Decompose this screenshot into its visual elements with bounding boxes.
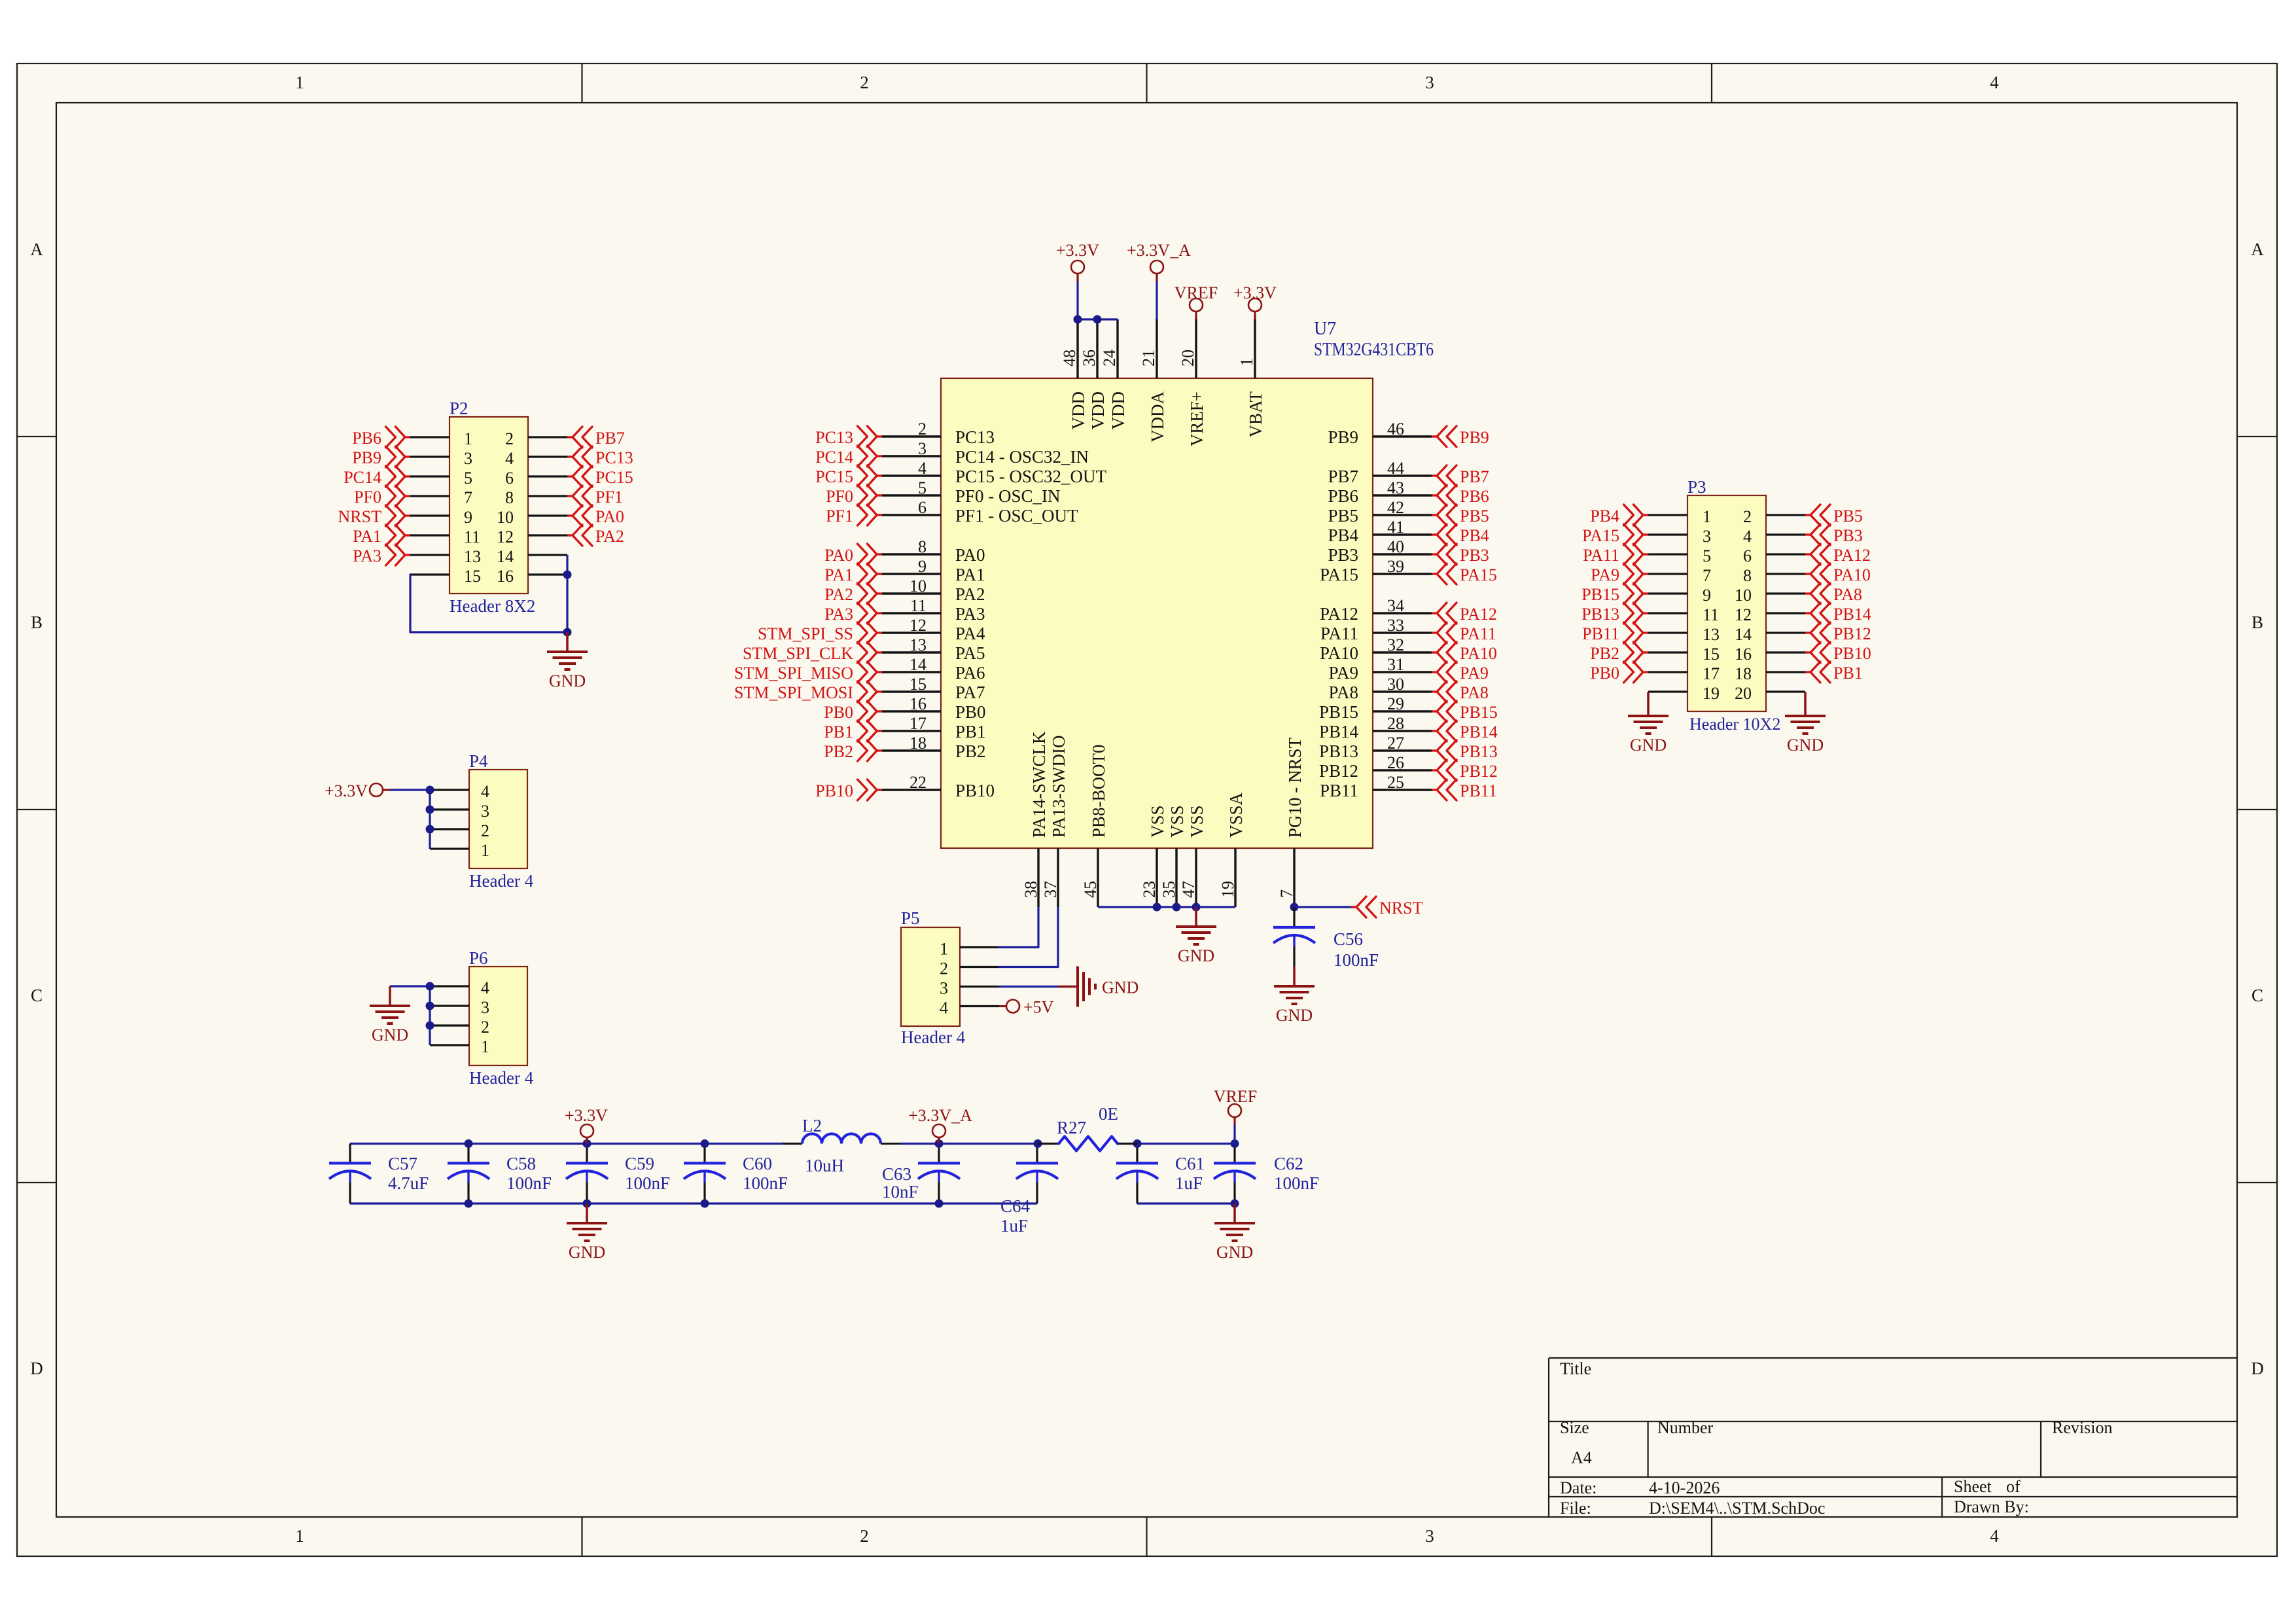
svg-text:48: 48 [1060, 349, 1079, 366]
svg-text:PB1: PB1 [824, 722, 853, 741]
svg-text:3: 3 [464, 449, 472, 468]
svg-text:18: 18 [1735, 664, 1752, 683]
svg-text:Header 4: Header 4 [469, 1068, 534, 1088]
svg-text:4: 4 [481, 782, 489, 801]
svg-text:15: 15 [464, 567, 481, 586]
svg-text:1: 1 [940, 940, 948, 959]
svg-text:4.7uF: 4.7uF [388, 1173, 429, 1193]
svg-text:PB4: PB4 [1590, 507, 1619, 526]
svg-text:2: 2 [481, 821, 489, 840]
svg-text:VSS: VSS [1167, 805, 1187, 838]
svg-text:PB14: PB14 [1319, 722, 1359, 741]
svg-text:C58: C58 [506, 1154, 536, 1173]
svg-text:PA13-SWDIO: PA13-SWDIO [1049, 735, 1069, 838]
svg-text:C61: C61 [1175, 1154, 1205, 1173]
svg-text:C62: C62 [1274, 1154, 1303, 1173]
svg-text:46: 46 [1387, 419, 1404, 438]
svg-text:3: 3 [1425, 73, 1434, 92]
svg-text:PB15: PB15 [1460, 703, 1498, 722]
svg-text:34: 34 [1387, 596, 1404, 615]
svg-text:40: 40 [1387, 537, 1404, 556]
svg-text:7: 7 [464, 488, 472, 507]
svg-text:44: 44 [1387, 459, 1404, 478]
svg-text:Header 4: Header 4 [469, 871, 534, 891]
svg-text:PA0: PA0 [595, 507, 624, 526]
svg-text:4: 4 [940, 999, 948, 1018]
svg-text:1: 1 [481, 841, 489, 860]
svg-text:PB13: PB13 [1460, 742, 1498, 761]
svg-text:39: 39 [1387, 557, 1404, 576]
svg-text:PF1 - OSC_OUT: PF1 - OSC_OUT [955, 506, 1078, 526]
svg-text:24: 24 [1100, 349, 1119, 366]
svg-text:B: B [31, 613, 43, 632]
svg-text:18: 18 [910, 734, 927, 753]
svg-text:3: 3 [1425, 1526, 1434, 1546]
svg-text:5: 5 [1703, 546, 1711, 565]
svg-text:33: 33 [1387, 616, 1404, 635]
svg-text:Size: Size [1560, 1418, 1589, 1437]
svg-text:PB10: PB10 [1833, 644, 1871, 663]
svg-text:12: 12 [910, 616, 927, 635]
svg-text:D: D [30, 1359, 43, 1378]
svg-text:PB7: PB7 [595, 429, 625, 448]
svg-text:PB3: PB3 [1460, 546, 1489, 565]
svg-text:PB0: PB0 [1590, 664, 1619, 683]
svg-text:4-10-2026: 4-10-2026 [1649, 1478, 1720, 1497]
svg-text:GND: GND [1102, 978, 1139, 997]
svg-text:PB2: PB2 [1590, 644, 1619, 663]
svg-text:U7: U7 [1314, 319, 1336, 339]
svg-text:2: 2 [1743, 507, 1752, 526]
svg-text:100nF: 100nF [1274, 1173, 1319, 1193]
svg-text:6: 6 [918, 498, 927, 517]
svg-text:0E: 0E [1099, 1104, 1118, 1124]
svg-text:PC15: PC15 [815, 467, 853, 486]
svg-text:4: 4 [505, 449, 514, 468]
svg-text:14: 14 [497, 547, 514, 566]
svg-text:PB8-BOOT0: PB8-BOOT0 [1089, 744, 1108, 838]
svg-text:2: 2 [918, 419, 927, 438]
svg-text:17: 17 [910, 714, 927, 733]
svg-text:C60: C60 [743, 1154, 772, 1173]
svg-text:37: 37 [1041, 881, 1060, 898]
svg-text:10nF: 10nF [882, 1182, 919, 1202]
svg-text:PB4: PB4 [1328, 526, 1358, 545]
svg-text:PA15: PA15 [1320, 565, 1358, 584]
svg-text:PB9: PB9 [352, 448, 381, 467]
svg-text:4: 4 [918, 459, 927, 478]
svg-text:PA15: PA15 [1460, 565, 1497, 584]
svg-text:PA3: PA3 [353, 546, 381, 565]
svg-text:Header 10X2: Header 10X2 [1689, 715, 1780, 734]
svg-text:PA12: PA12 [1833, 546, 1871, 565]
svg-text:PA6: PA6 [955, 663, 985, 683]
svg-text:23: 23 [1140, 881, 1159, 898]
svg-text:PA1: PA1 [353, 527, 381, 546]
svg-text:PC15: PC15 [595, 468, 633, 487]
svg-text:8: 8 [505, 488, 514, 507]
svg-text:29: 29 [1387, 694, 1404, 713]
svg-text:100nF: 100nF [625, 1173, 670, 1193]
svg-text:PB5: PB5 [1833, 507, 1863, 526]
svg-text:PB2: PB2 [955, 741, 986, 761]
svg-text:PB4: PB4 [1460, 526, 1489, 545]
svg-text:9: 9 [464, 508, 472, 527]
svg-text:STM_SPI_CLK: STM_SPI_CLK [743, 644, 853, 663]
svg-text:13: 13 [1703, 625, 1720, 644]
svg-text:22: 22 [910, 773, 927, 792]
svg-text:PC13: PC13 [815, 428, 853, 447]
svg-text:B: B [2252, 613, 2263, 632]
svg-text:PB6: PB6 [352, 429, 381, 448]
svg-text:45: 45 [1081, 881, 1100, 898]
svg-text:PA12: PA12 [1320, 604, 1358, 624]
svg-text:7: 7 [1703, 566, 1711, 585]
svg-text:PB7: PB7 [1328, 467, 1358, 486]
svg-text:16: 16 [1735, 645, 1752, 664]
svg-text:GND: GND [1276, 1006, 1313, 1025]
svg-text:PA2: PA2 [595, 527, 624, 546]
svg-text:P5: P5 [901, 908, 920, 928]
svg-text:PA0: PA0 [955, 545, 985, 565]
svg-text:PB7: PB7 [1460, 467, 1489, 486]
svg-text:PB13: PB13 [1319, 741, 1358, 761]
svg-text:PA4: PA4 [955, 624, 985, 643]
svg-text:P3: P3 [1687, 477, 1706, 497]
svg-text:PA3: PA3 [824, 605, 853, 624]
svg-text:PF1: PF1 [826, 507, 853, 526]
svg-text:NRST: NRST [338, 507, 382, 526]
svg-text:PB11: PB11 [1582, 624, 1619, 643]
svg-text:2: 2 [481, 1018, 489, 1037]
svg-text:1: 1 [1703, 507, 1711, 526]
svg-text:14: 14 [910, 655, 927, 674]
svg-text:Title: Title [1560, 1359, 1591, 1378]
svg-text:PA9: PA9 [1591, 565, 1619, 584]
svg-text:PF0 - OSC_IN: PF0 - OSC_IN [955, 486, 1061, 506]
svg-text:D: D [2251, 1359, 2264, 1378]
svg-text:C63: C63 [882, 1164, 911, 1184]
svg-text:100nF: 100nF [743, 1173, 788, 1193]
svg-text:35: 35 [1159, 881, 1178, 898]
svg-text:+3.3V: +3.3V [325, 781, 368, 800]
svg-text:15: 15 [1703, 645, 1720, 664]
svg-text:8: 8 [1743, 566, 1752, 585]
svg-text:+5V: +5V [1023, 998, 1054, 1017]
svg-text:2: 2 [860, 1526, 869, 1546]
svg-text:PB9: PB9 [1460, 428, 1489, 447]
svg-text:PB6: PB6 [1460, 487, 1489, 506]
svg-text:14: 14 [1735, 625, 1752, 644]
svg-text:+3.3V: +3.3V [565, 1106, 608, 1125]
svg-text:25: 25 [1387, 773, 1404, 792]
svg-text:11: 11 [464, 527, 480, 546]
svg-text:PG10 - NRST: PG10 - NRST [1285, 737, 1305, 838]
svg-text:PB1: PB1 [1833, 664, 1863, 683]
svg-text:PA3: PA3 [955, 604, 985, 624]
svg-text:43: 43 [1387, 478, 1404, 497]
svg-text:PA15: PA15 [1582, 526, 1619, 545]
svg-text:PA10: PA10 [1833, 565, 1871, 584]
svg-text:+3.3V_A: +3.3V_A [908, 1106, 972, 1125]
svg-text:P4: P4 [469, 751, 488, 771]
svg-text:PB3: PB3 [1833, 526, 1863, 545]
svg-text:16: 16 [910, 694, 927, 713]
svg-text:PF0: PF0 [826, 487, 853, 506]
svg-text:GND: GND [1178, 946, 1214, 965]
svg-text:PA11: PA11 [1320, 624, 1358, 643]
svg-text:PA11: PA11 [1583, 546, 1619, 565]
svg-text:6: 6 [1743, 546, 1752, 565]
svg-text:+3.3V_A: +3.3V_A [1127, 241, 1191, 260]
svg-text:C: C [31, 986, 43, 1005]
svg-text:42: 42 [1387, 498, 1404, 517]
svg-text:VREF: VREF [1174, 283, 1218, 302]
svg-text:2: 2 [940, 959, 948, 978]
svg-text:26: 26 [1387, 753, 1404, 772]
svg-text:PA5: PA5 [955, 643, 985, 663]
svg-text:PB14: PB14 [1833, 605, 1871, 624]
svg-text:PB0: PB0 [824, 703, 853, 722]
svg-text:PB11: PB11 [1320, 781, 1358, 800]
svg-text:12: 12 [1735, 605, 1752, 624]
svg-text:PB5: PB5 [1460, 507, 1489, 526]
svg-text:13: 13 [464, 547, 481, 566]
svg-text:PF1: PF1 [595, 488, 623, 507]
svg-text:3: 3 [940, 979, 948, 998]
svg-text:3: 3 [1703, 527, 1711, 546]
svg-text:GND: GND [549, 671, 586, 690]
svg-text:PB6: PB6 [1328, 486, 1358, 506]
svg-text:17: 17 [1703, 664, 1720, 683]
svg-text:PA11: PA11 [1460, 624, 1496, 643]
svg-text:PA1: PA1 [824, 565, 853, 584]
svg-text:21: 21 [1139, 349, 1158, 366]
svg-text:Sheet: Sheet [1954, 1477, 1992, 1496]
svg-text:R27: R27 [1057, 1118, 1086, 1137]
svg-text:15: 15 [910, 675, 927, 694]
svg-text:VDD: VDD [1108, 391, 1128, 430]
svg-text:7: 7 [1277, 889, 1296, 898]
svg-text:VDD: VDD [1069, 391, 1088, 430]
svg-text:PA8: PA8 [1460, 683, 1489, 702]
svg-text:PC14: PC14 [344, 468, 381, 487]
svg-text:4: 4 [1990, 73, 1999, 92]
svg-text:6: 6 [505, 469, 514, 488]
svg-text:C: C [2252, 986, 2263, 1005]
svg-text:19: 19 [1703, 684, 1720, 703]
svg-text:P6: P6 [469, 948, 488, 968]
svg-text:PC14: PC14 [815, 448, 853, 467]
svg-text:9: 9 [918, 557, 927, 576]
svg-text:16: 16 [497, 567, 514, 586]
svg-text:PA14-SWCLK: PA14-SWCLK [1029, 731, 1049, 838]
svg-text:Date:: Date: [1560, 1478, 1597, 1497]
svg-text:PA10: PA10 [1320, 643, 1358, 663]
svg-text:3: 3 [918, 439, 927, 458]
svg-text:PB3: PB3 [1328, 545, 1358, 565]
svg-text:1uF: 1uF [1175, 1173, 1203, 1193]
svg-text:PA0: PA0 [824, 546, 853, 565]
svg-text:PA7: PA7 [955, 683, 985, 702]
svg-text:Revision: Revision [2052, 1418, 2112, 1437]
svg-text:VREF: VREF [1214, 1087, 1257, 1106]
svg-text:PA2: PA2 [955, 584, 985, 604]
svg-text:19: 19 [1218, 881, 1237, 898]
svg-text:A: A [30, 240, 43, 259]
svg-text:STM32G431CBT6: STM32G431CBT6 [1314, 340, 1434, 360]
svg-text:3: 3 [481, 998, 489, 1017]
svg-text:GND: GND [569, 1243, 605, 1262]
svg-text:PB15: PB15 [1319, 702, 1358, 722]
svg-text:5: 5 [918, 478, 927, 497]
svg-text:13: 13 [910, 635, 927, 654]
svg-text:32: 32 [1387, 635, 1404, 654]
svg-text:5: 5 [464, 469, 472, 488]
svg-text:A4: A4 [1571, 1448, 1592, 1467]
svg-text:VSS: VSS [1148, 805, 1167, 838]
svg-text:4: 4 [1990, 1526, 1999, 1546]
svg-text:VDD: VDD [1088, 391, 1108, 430]
svg-text:VSS: VSS [1187, 805, 1207, 838]
svg-text:PA8: PA8 [1833, 585, 1862, 604]
svg-text:Number: Number [1657, 1418, 1714, 1437]
svg-text:PC15 - OSC32_OUT: PC15 - OSC32_OUT [955, 467, 1107, 486]
svg-text:L2: L2 [802, 1116, 822, 1135]
svg-text:10: 10 [497, 508, 514, 527]
svg-text:1: 1 [295, 73, 304, 92]
svg-text:1: 1 [295, 1526, 304, 1546]
svg-text:A: A [2251, 240, 2264, 259]
svg-text:STM_SPI_MISO: STM_SPI_MISO [734, 664, 853, 683]
svg-text:C59: C59 [625, 1154, 654, 1173]
svg-text:Drawn By:: Drawn By: [1954, 1497, 2029, 1516]
svg-text:C56: C56 [1333, 929, 1363, 949]
svg-text:PA9: PA9 [1460, 664, 1489, 683]
svg-text:9: 9 [1703, 586, 1711, 605]
svg-text:PB1: PB1 [955, 722, 986, 741]
svg-text:27: 27 [1387, 734, 1404, 753]
svg-text:47: 47 [1179, 881, 1198, 898]
svg-text:11: 11 [1703, 605, 1719, 624]
svg-text:11: 11 [910, 596, 927, 615]
svg-text:PB13: PB13 [1581, 605, 1619, 624]
svg-text:GND: GND [1216, 1243, 1253, 1262]
svg-text:1: 1 [464, 429, 472, 448]
svg-text:PB10: PB10 [955, 781, 995, 800]
svg-text:STM_SPI_SS: STM_SPI_SS [758, 624, 853, 643]
svg-text:C64: C64 [1000, 1196, 1031, 1216]
svg-text:PB12: PB12 [1833, 624, 1871, 643]
svg-text:PB0: PB0 [955, 702, 986, 722]
svg-text:1: 1 [1237, 358, 1256, 366]
svg-text:VREF+: VREF+ [1187, 391, 1207, 446]
svg-text:PA10: PA10 [1460, 644, 1497, 663]
svg-text:VBAT: VBAT [1246, 391, 1265, 438]
svg-text:2: 2 [505, 429, 514, 448]
svg-text:1: 1 [481, 1037, 489, 1056]
svg-text:41: 41 [1387, 518, 1404, 537]
svg-text:36: 36 [1080, 349, 1099, 366]
svg-text:GND: GND [372, 1026, 408, 1044]
svg-text:PB9: PB9 [1328, 427, 1358, 447]
svg-text:File:: File: [1560, 1499, 1591, 1518]
svg-text:VDDA: VDDA [1148, 391, 1167, 442]
svg-text:8: 8 [918, 537, 927, 556]
svg-text:30: 30 [1387, 675, 1404, 694]
svg-text:38: 38 [1021, 881, 1040, 898]
svg-text:3: 3 [481, 802, 489, 821]
svg-text:+3.3V: +3.3V [1233, 283, 1277, 302]
svg-text:PB11: PB11 [1460, 781, 1497, 800]
svg-text:PA2: PA2 [824, 585, 853, 604]
svg-text:10: 10 [910, 577, 927, 596]
svg-text:GND: GND [1630, 736, 1667, 755]
svg-text:NRST: NRST [1379, 899, 1423, 918]
svg-text:10uH: 10uH [805, 1156, 844, 1175]
svg-text:PA1: PA1 [955, 565, 985, 584]
svg-text:20: 20 [1735, 684, 1752, 703]
svg-text:of: of [2006, 1477, 2021, 1496]
svg-text:+3.3V: +3.3V [1056, 241, 1099, 260]
svg-text:PB5: PB5 [1328, 506, 1358, 526]
svg-text:100nF: 100nF [506, 1173, 552, 1193]
svg-text:GND: GND [1787, 736, 1824, 755]
svg-text:10: 10 [1735, 586, 1752, 605]
svg-text:4: 4 [481, 978, 489, 997]
svg-text:VSSA: VSSA [1226, 792, 1246, 838]
svg-text:4: 4 [1743, 527, 1752, 546]
svg-text:PB15: PB15 [1581, 585, 1619, 604]
svg-text:C57: C57 [388, 1154, 417, 1173]
svg-text:PB14: PB14 [1460, 722, 1498, 741]
svg-text:1uF: 1uF [1000, 1216, 1028, 1236]
svg-text:2: 2 [860, 73, 869, 92]
svg-text:PA9: PA9 [1328, 663, 1358, 683]
svg-text:PB12: PB12 [1460, 762, 1498, 781]
svg-text:20: 20 [1178, 349, 1197, 366]
svg-text:PB10: PB10 [815, 781, 853, 800]
svg-text:PC13: PC13 [595, 448, 633, 467]
svg-text:Header 8X2: Header 8X2 [450, 596, 535, 616]
svg-text:PA8: PA8 [1328, 683, 1358, 702]
svg-text:31: 31 [1387, 655, 1404, 674]
svg-text:Header 4: Header 4 [901, 1027, 966, 1047]
svg-text:PB12: PB12 [1319, 761, 1358, 781]
svg-text:PA12: PA12 [1460, 605, 1497, 624]
svg-text:P2: P2 [450, 399, 468, 418]
svg-text:PC13: PC13 [955, 427, 995, 447]
svg-text:PC14 - OSC32_IN: PC14 - OSC32_IN [955, 447, 1089, 467]
svg-text:12: 12 [497, 527, 514, 546]
svg-text:STM_SPI_MOSI: STM_SPI_MOSI [734, 683, 853, 702]
svg-text:28: 28 [1387, 714, 1404, 733]
svg-text:PB2: PB2 [824, 742, 853, 761]
svg-text:PF0: PF0 [354, 488, 381, 507]
svg-text:100nF: 100nF [1333, 950, 1379, 970]
svg-text:D:\SEM4\..\STM.SchDoc: D:\SEM4\..\STM.SchDoc [1649, 1499, 1825, 1518]
